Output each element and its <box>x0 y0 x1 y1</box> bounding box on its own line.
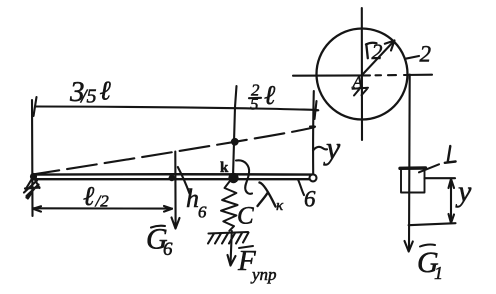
label 1 leader <box>419 164 439 172</box>
svg-text:k: k <box>220 160 229 176</box>
svg-text:5: 5 <box>250 95 259 114</box>
label r2 <box>366 43 377 58</box>
left vertical extension line <box>31 100 34 216</box>
svg-text:6: 6 <box>163 239 173 260</box>
dot on dashed line <box>231 138 239 146</box>
svg-text:/2: /2 <box>95 192 110 211</box>
support triangle <box>26 177 40 189</box>
y dimension bottom line <box>409 223 456 225</box>
ground line for spring <box>209 232 249 234</box>
label 1 <box>445 146 456 163</box>
svg-text:ℓ: ℓ <box>264 80 276 110</box>
right tick <box>315 101 317 119</box>
svg-text:/5: /5 <box>80 86 97 108</box>
svg-text:ℓ: ℓ <box>83 181 95 211</box>
left tick <box>34 97 37 116</box>
pivot dot <box>30 173 37 180</box>
label G6 <box>151 226 165 228</box>
rope from pulley to beam end <box>312 91 315 174</box>
arrowhead G1 <box>405 241 413 252</box>
l/2 dimension line <box>33 207 172 209</box>
l/2 left arrowhead <box>33 206 41 211</box>
force F_upr arrow <box>231 231 232 262</box>
svg-text:2: 2 <box>372 39 383 64</box>
ground hatching <box>208 233 249 244</box>
beam mass dot <box>169 175 175 181</box>
svg-text:2: 2 <box>420 42 432 67</box>
label lambda_k <box>258 183 276 207</box>
spring <box>221 180 238 231</box>
svg-text:1: 1 <box>434 263 443 283</box>
hook curve at K <box>236 160 252 194</box>
svg-text:C: C <box>237 203 254 230</box>
label G1 <box>420 245 435 247</box>
svg-text:упр: упр <box>250 265 277 284</box>
y dimension at block: top line <box>425 177 456 179</box>
pulley circle body 2 <box>317 29 408 120</box>
pulley vertical centerline <box>361 8 363 140</box>
pin circle at beam right end <box>310 174 317 181</box>
support hatching <box>24 181 40 199</box>
svg-text:6: 6 <box>198 203 207 222</box>
label F_upr <box>239 246 253 248</box>
force G6 arrow <box>174 152 176 226</box>
label 2 leader <box>405 56 419 59</box>
beam top line <box>33 173 313 176</box>
rope from pulley to block <box>408 75 411 249</box>
svg-text:6: 6 <box>304 187 316 212</box>
radius r2 arrow <box>363 41 395 75</box>
spring attachment dot K <box>228 173 238 183</box>
axle hatch <box>353 88 369 96</box>
h6 label leader <box>178 167 190 194</box>
l/2 right arrowhead <box>164 206 172 212</box>
block top thick edge <box>400 166 426 170</box>
beam bottom line <box>33 178 313 181</box>
mid vertical line to point K <box>233 107 235 177</box>
pulley horizontal centerline <box>293 75 432 76</box>
dimension line 3/5 l + 2/5 l <box>35 107 318 111</box>
svg-text:κ: κ <box>276 198 284 214</box>
svg-text:ℓ: ℓ <box>100 76 112 106</box>
y dimension vertical arrow <box>450 179 452 223</box>
middle tick <box>235 86 237 107</box>
dashed deflected beam line <box>36 126 316 174</box>
block body 1 <box>401 168 425 193</box>
y label leader at beam end <box>313 147 327 151</box>
label 6 leader below beam end <box>298 180 304 196</box>
svg-text:y: y <box>455 175 472 208</box>
svg-text:y: y <box>323 130 341 166</box>
